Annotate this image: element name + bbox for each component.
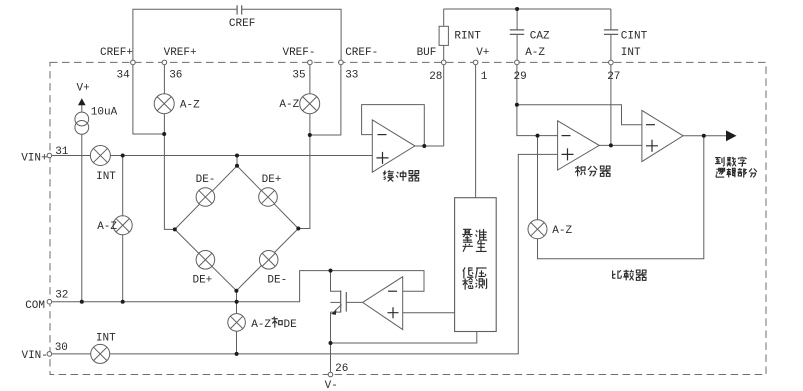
svg-text:VREF-: VREF- xyxy=(282,47,315,59)
svg-text:1: 1 xyxy=(481,71,488,83)
svg-text:CREF: CREF xyxy=(229,18,255,30)
svg-text:29: 29 xyxy=(514,71,527,83)
svg-text:CAZ: CAZ xyxy=(530,31,550,43)
svg-text:26: 26 xyxy=(335,363,348,375)
svg-text:DE: DE xyxy=(284,319,298,331)
svg-text:33: 33 xyxy=(345,70,358,82)
svg-text:A-Z: A-Z xyxy=(525,47,545,59)
svg-text:30: 30 xyxy=(55,342,68,354)
svg-text:31: 31 xyxy=(55,146,69,158)
svg-text:DE-: DE- xyxy=(196,174,216,186)
svg-text:10uA: 10uA xyxy=(91,106,118,118)
svg-text:36: 36 xyxy=(169,70,182,82)
svg-text:BUF: BUF xyxy=(417,47,437,59)
svg-text:35: 35 xyxy=(292,70,305,82)
svg-text:INT: INT xyxy=(621,47,641,59)
svg-text:V+: V+ xyxy=(76,82,89,94)
svg-text:CREF+: CREF+ xyxy=(100,47,133,59)
svg-text:32: 32 xyxy=(55,290,68,302)
svg-text:A-Z: A-Z xyxy=(251,319,271,331)
svg-text:27: 27 xyxy=(607,71,620,83)
svg-text:CINT: CINT xyxy=(621,31,648,43)
svg-text:DE+: DE+ xyxy=(262,174,282,186)
svg-text:VIN-: VIN- xyxy=(21,350,47,362)
svg-text:INT: INT xyxy=(96,333,116,345)
svg-text:A-Z: A-Z xyxy=(97,221,117,233)
svg-text:DE-: DE- xyxy=(267,275,287,287)
svg-text:VIN+: VIN+ xyxy=(21,152,47,164)
svg-text:V-: V- xyxy=(325,380,338,391)
svg-text:28: 28 xyxy=(429,71,442,83)
svg-text:A-Z: A-Z xyxy=(279,99,299,111)
svg-text:DE+: DE+ xyxy=(192,275,212,287)
svg-text:RINT: RINT xyxy=(454,31,481,43)
svg-text:COM: COM xyxy=(25,300,45,312)
svg-text:INT: INT xyxy=(96,171,116,183)
svg-text:V+: V+ xyxy=(476,47,489,59)
svg-text:A-Z: A-Z xyxy=(552,225,572,237)
svg-text:34: 34 xyxy=(116,70,130,82)
svg-text:VREF+: VREF+ xyxy=(164,47,197,59)
svg-text:CREF-: CREF- xyxy=(345,47,378,59)
svg-text:A-Z: A-Z xyxy=(180,99,200,111)
